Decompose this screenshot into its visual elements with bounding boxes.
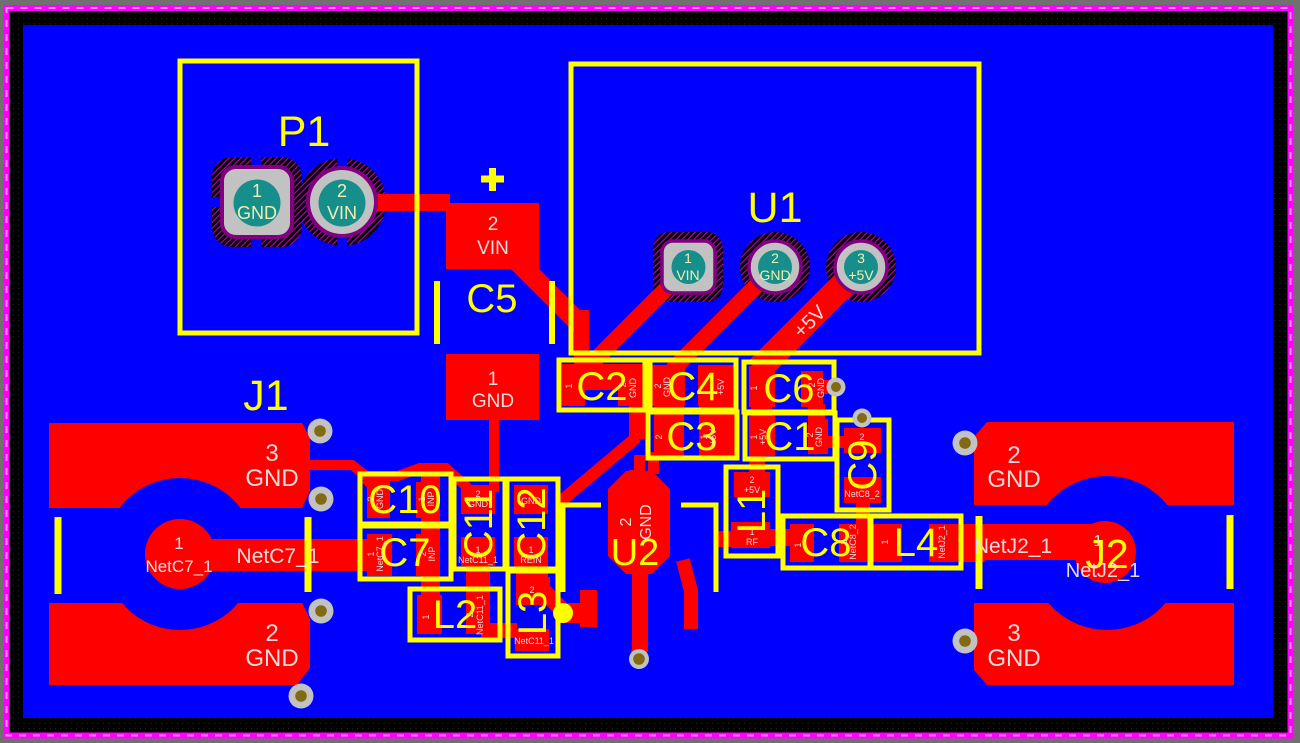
wire C1.1 to L1.2 xyxy=(749,455,765,474)
wire band to C10.1 xyxy=(421,468,440,486)
svg-text:GND: GND xyxy=(375,489,385,510)
outline U1 xyxy=(571,64,979,353)
svg-text:2: 2 xyxy=(465,612,475,617)
pad C7.1 xyxy=(367,534,392,576)
pad C6.2 xyxy=(801,371,823,407)
pad L3.1 xyxy=(515,629,549,651)
svg-text:1: 1 xyxy=(252,181,262,201)
svg-text:2: 2 xyxy=(475,489,480,499)
svg-text:NetC7_1: NetC7_1 xyxy=(145,557,212,576)
wire junction arm xyxy=(558,603,584,623)
svg-text:NetC7_1: NetC7_1 xyxy=(237,545,320,568)
svg-text:RF: RF xyxy=(746,537,758,547)
polarity plus C5 xyxy=(481,168,504,191)
wire C5.1 GND vertical down to C11 xyxy=(489,420,499,492)
wire U1.1 trace over hatch xyxy=(600,267,688,355)
svg-text:P1: P1 xyxy=(278,108,331,156)
pad C7.2 xyxy=(416,534,440,576)
svg-text:2: 2 xyxy=(749,475,754,485)
svg-text:1: 1 xyxy=(528,545,533,555)
wire U1.1 trace xyxy=(577,267,688,378)
pad C9.2 xyxy=(844,428,881,453)
wire U2 bottom trace xyxy=(632,574,648,652)
silk U2 right bracket xyxy=(681,505,716,592)
svg-text:2: 2 xyxy=(529,585,534,595)
wire P1.2 to C5.2 xyxy=(366,194,450,211)
svg-text:GND: GND xyxy=(759,267,790,283)
thermal relief gaps P1 xyxy=(206,156,388,248)
wire L4.2 to J2 xyxy=(951,524,985,562)
svg-text:2: 2 xyxy=(654,434,664,439)
courtyard J1 left bar xyxy=(55,517,62,594)
outline C10 xyxy=(360,474,451,524)
pad C9.1 xyxy=(844,477,881,503)
pad C6.1 xyxy=(749,366,775,407)
svg-text:NetJ2_1: NetJ2_1 xyxy=(974,535,1052,558)
wire RF to C8.1 xyxy=(770,529,791,546)
pad C2.1 xyxy=(562,364,585,406)
hatched clearance U1.1 xyxy=(653,232,723,302)
silk U2 left bracket xyxy=(563,505,601,592)
via J1 b xyxy=(309,487,334,512)
wire junction T bar xyxy=(580,590,597,627)
svg-text:NetC8_2: NetC8_2 xyxy=(848,524,858,560)
svg-text:+5V: +5V xyxy=(716,379,726,395)
svg-text:VIN: VIN xyxy=(676,267,699,283)
courtyard J1 right bar xyxy=(305,517,312,592)
svg-text:VIN: VIN xyxy=(477,238,509,259)
wire C8.2-L4.1 connector xyxy=(861,524,879,562)
outline C2 xyxy=(559,360,645,410)
wire GND band to C11 xyxy=(310,465,468,488)
pad C12.2 xyxy=(514,485,548,514)
wire trace1 landing fill C2 xyxy=(584,364,618,390)
pad C10.2 xyxy=(367,482,390,518)
pad L2.1 xyxy=(417,595,442,634)
svg-text:REIN: REIN xyxy=(520,555,542,565)
svg-text:C9: C9 xyxy=(841,439,885,490)
svg-text:GND: GND xyxy=(816,378,826,399)
svg-text:2: 2 xyxy=(265,620,278,647)
pad U1.1 body xyxy=(662,241,715,293)
svg-text:1: 1 xyxy=(749,527,754,537)
courtyard J2 left bar xyxy=(976,516,983,589)
via below U2 xyxy=(629,649,649,669)
svg-text:1: 1 xyxy=(564,383,574,388)
pad U2 thermal octagon xyxy=(608,471,670,574)
svg-text:3: 3 xyxy=(857,250,865,266)
svg-text:NetC8_2: NetC8_2 xyxy=(844,489,880,499)
svg-text:NetC7_1: NetC7_1 xyxy=(375,536,385,572)
J1 ground pour bottom xyxy=(49,603,310,685)
pad C10.1 xyxy=(416,482,440,518)
svg-text:C4: C4 xyxy=(667,365,718,409)
svg-text:3: 3 xyxy=(265,440,278,467)
outline C1 xyxy=(745,413,835,459)
via near C9 xyxy=(853,409,872,428)
wire C10.1-C7.2 connector xyxy=(421,516,440,536)
svg-text:GND: GND xyxy=(237,203,277,223)
pad P1.2 body xyxy=(308,168,376,236)
svg-text:GND: GND xyxy=(245,465,298,492)
outline C11 xyxy=(454,479,505,569)
wire U2 top stub xyxy=(629,470,645,480)
svg-text:GND: GND xyxy=(472,391,514,412)
svg-text:+5V: +5V xyxy=(708,429,718,445)
outline L1 xyxy=(726,467,778,556)
wire C6-C1 left connector xyxy=(751,404,772,421)
svg-text:NetC11_1: NetC11_1 xyxy=(475,595,485,635)
pad C5.1 GND xyxy=(446,354,539,420)
svg-text:GND: GND xyxy=(245,645,298,672)
pad L1.2 xyxy=(734,472,770,497)
J2 ground pour top xyxy=(974,422,1234,505)
svg-text:NetJ2_1: NetJ2_1 xyxy=(1066,560,1141,582)
svg-text:GND: GND xyxy=(814,427,824,448)
courtyard J2 right bar xyxy=(1227,515,1234,589)
wire L3.2 diagonal to junction xyxy=(543,590,564,612)
wire U2 trace round end xyxy=(631,645,647,661)
pad C3.1 xyxy=(699,415,735,458)
silk junction dot xyxy=(553,603,573,623)
wire C1.2 to C9.2 xyxy=(820,436,850,448)
svg-text:2: 2 xyxy=(618,382,628,387)
hatched clearance P1.2 xyxy=(298,158,386,246)
svg-text:GND: GND xyxy=(521,496,542,506)
svg-text:INP: INP xyxy=(427,546,437,561)
svg-text:2: 2 xyxy=(1007,442,1020,469)
wire VIN vertical into C2.1 xyxy=(574,310,589,370)
wire C3.2 stub down xyxy=(648,452,659,474)
svg-text:2: 2 xyxy=(618,517,635,526)
pad C11.2 xyxy=(461,485,495,514)
svg-text:1: 1 xyxy=(1094,533,1103,550)
via J2 b xyxy=(953,629,978,654)
hatched clearance P1.1 xyxy=(212,157,302,247)
outline L3 xyxy=(508,571,558,656)
pad C1.2 xyxy=(808,419,828,454)
outline C8 xyxy=(783,516,870,568)
wire C4-C3 right connector xyxy=(699,404,735,421)
pad C1.1 xyxy=(749,416,775,456)
svg-text:GND: GND xyxy=(987,645,1040,672)
wire J1.3 stub xyxy=(308,460,354,470)
svg-text:+5V: +5V xyxy=(758,429,768,445)
svg-text:2: 2 xyxy=(488,214,499,235)
wire NetJ2_1 fat trace xyxy=(983,524,1105,560)
svg-text:1: 1 xyxy=(880,539,890,544)
outline C4 xyxy=(650,360,736,410)
wire C12.1-L3.2 connector xyxy=(516,564,548,579)
wire VIN diagonal C5.2 down xyxy=(507,251,589,333)
svg-text:GND: GND xyxy=(468,499,489,509)
pad C8.1 xyxy=(790,524,814,562)
pad L2.2 xyxy=(466,595,490,634)
wire L2.2-C11.1 connector xyxy=(466,564,490,597)
J1 ground pour top xyxy=(49,423,310,508)
svg-text:NetC11_1: NetC11_1 xyxy=(514,636,554,646)
via J1 a xyxy=(308,419,333,444)
wire U1.3 trace +5V xyxy=(757,267,861,371)
svg-text:1: 1 xyxy=(749,385,759,390)
outline C3 xyxy=(648,412,737,458)
pad P1.1 body xyxy=(222,167,292,237)
pad L3.2 xyxy=(516,577,550,605)
pad C2.2 xyxy=(618,364,644,406)
courtyard C5 left bar xyxy=(434,281,440,344)
outline L2 xyxy=(410,589,500,640)
J1 clearance annulus xyxy=(104,478,256,630)
wire U1.2 trace over hatch xyxy=(686,267,775,356)
J2 clearance annulus xyxy=(1030,476,1184,630)
outline L4 xyxy=(871,516,961,568)
via J2 a xyxy=(953,431,978,456)
hatched clearance U1.3 xyxy=(826,232,896,302)
svg-text:J1: J1 xyxy=(243,372,288,420)
pad C4.1 xyxy=(651,365,685,406)
wire C9.1 to C8.2 xyxy=(856,503,870,526)
svg-text:2: 2 xyxy=(771,250,779,266)
pad L4.2 xyxy=(929,524,953,562)
svg-text:+5V: +5V xyxy=(744,485,760,495)
J2 ground pour bottom xyxy=(974,603,1234,685)
svg-text:VIN: VIN xyxy=(327,203,357,223)
svg-text:2: 2 xyxy=(859,432,864,442)
wire C4-C3 left connector xyxy=(654,404,684,421)
svg-text:INP: INP xyxy=(426,491,436,506)
outline C7 xyxy=(360,526,451,579)
courtyard C5 right bar xyxy=(549,281,555,344)
pad C3.2 xyxy=(654,415,684,458)
wire band to C10.2 xyxy=(366,478,378,490)
wire P1.2 over hatch xyxy=(360,194,450,211)
pad U1.2 body xyxy=(749,241,801,293)
wire U1.3 trace over hatch xyxy=(772,267,861,356)
pad C12.1 xyxy=(514,537,548,566)
svg-text:1: 1 xyxy=(684,250,692,266)
wire RF left stub xyxy=(716,531,736,547)
pad L1.1 xyxy=(731,522,770,548)
svg-text:C6: C6 xyxy=(763,367,814,411)
wire L2.2 to L3.1 connector xyxy=(481,623,517,638)
svg-text:1: 1 xyxy=(174,534,183,553)
wire C2.2 GND down to U2 xyxy=(629,405,645,439)
wire GND diagonal to C12.1 xyxy=(560,437,637,502)
svg-text:2: 2 xyxy=(337,181,347,201)
svg-text:+5V: +5V xyxy=(848,267,874,283)
hatched clearance U1.2 xyxy=(740,232,810,302)
svg-text:1: 1 xyxy=(421,614,431,619)
outline C12 xyxy=(507,479,558,569)
pad C4.2 xyxy=(698,365,735,406)
via near C6 xyxy=(827,378,846,397)
wire NetC7_1 fat trace xyxy=(180,539,392,571)
svg-text:1: 1 xyxy=(488,369,499,390)
outline P1 xyxy=(180,61,417,333)
pad J2.1 xyxy=(1074,521,1136,583)
outline C9 xyxy=(837,420,889,510)
pad U1.3 body xyxy=(835,241,887,293)
svg-text:NetC11_1: NetC11_1 xyxy=(458,555,498,565)
wire C6-C1 right connector xyxy=(808,404,825,421)
svg-text:1: 1 xyxy=(475,545,480,555)
outline C6 xyxy=(744,362,834,412)
svg-text:U1: U1 xyxy=(748,184,803,232)
via J1 d xyxy=(289,684,314,709)
pad C5.2 VIN xyxy=(446,203,539,269)
svg-text:L4: L4 xyxy=(894,521,939,565)
pad L4.1 xyxy=(877,524,902,562)
wire U1.2 trace xyxy=(672,267,775,370)
svg-text:L3: L3 xyxy=(511,591,555,636)
pad C8.2 xyxy=(839,524,863,562)
svg-text:GND: GND xyxy=(638,504,655,540)
wire C6.2 to via xyxy=(820,380,838,394)
wire U2 right diagonal xyxy=(683,560,691,629)
svg-text:GND: GND xyxy=(628,378,638,399)
svg-text:C5: C5 xyxy=(466,277,517,321)
svg-text:GND: GND xyxy=(662,377,672,398)
svg-text:1: 1 xyxy=(793,542,803,547)
via J1 c xyxy=(309,599,334,624)
wire C7.2-L2.1 connector xyxy=(421,574,440,597)
pad C11.1 xyxy=(461,537,495,566)
svg-text:GND: GND xyxy=(987,466,1040,493)
svg-text:NetJ2_1: NetJ2_1 xyxy=(937,525,947,559)
wire stub diagonal to U2 xyxy=(634,455,645,475)
pad J1.1 xyxy=(145,519,215,589)
svg-text:3: 3 xyxy=(1007,620,1020,647)
